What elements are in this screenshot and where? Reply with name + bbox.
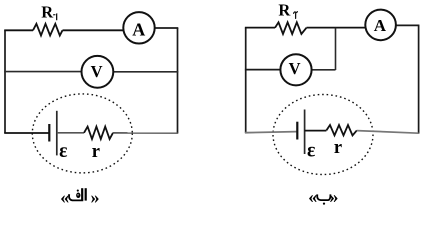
svg-text:V: V <box>289 59 301 78</box>
svg-text:V: V <box>91 62 103 81</box>
svg-text:A: A <box>132 19 145 39</box>
svg-text:r: r <box>92 142 100 162</box>
svg-text:r: r <box>334 138 342 158</box>
svg-text:R: R <box>41 3 54 22</box>
svg-text:«: « <box>308 187 317 207</box>
svg-text:ε: ε <box>59 141 67 162</box>
svg-text:«: « <box>60 187 69 207</box>
svg-text:A: A <box>374 16 387 35</box>
svg-text:ε: ε <box>307 140 315 161</box>
svg-text:»: » <box>91 187 100 207</box>
svg-text:R: R <box>278 0 291 19</box>
